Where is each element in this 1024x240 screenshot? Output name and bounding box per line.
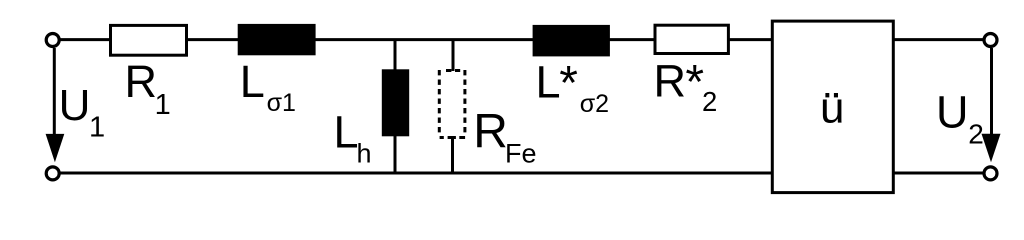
inductor Lh bbox=[382, 69, 409, 136]
svg-text:L: L bbox=[536, 56, 561, 107]
svg-text:R: R bbox=[654, 55, 687, 106]
terminal top-right bbox=[984, 34, 997, 47]
svg-text:R: R bbox=[473, 106, 508, 159]
svg-text:2: 2 bbox=[702, 86, 717, 117]
svg-text:R: R bbox=[125, 56, 158, 107]
resistor R2* bbox=[655, 25, 728, 53]
wire RFe branch top stub bbox=[452, 40, 455, 71]
wire RFe branch bottom stub bbox=[451, 137, 454, 174]
U2 voltage arrow bbox=[990, 48, 993, 140]
inductor Lsigma2* bbox=[533, 25, 610, 57]
transformer uebersetzung box bbox=[772, 21, 893, 193]
U1 voltage arrow bbox=[53, 48, 56, 140]
resistor RFe (dashed) bbox=[439, 70, 465, 138]
svg-text:2: 2 bbox=[968, 118, 984, 149]
resistor R1 bbox=[111, 25, 187, 55]
inductor Lsigma1 bbox=[238, 24, 316, 55]
terminal bottom-left bbox=[46, 167, 59, 180]
svg-text:σ2: σ2 bbox=[580, 90, 609, 118]
wire bottom rail bbox=[58, 172, 984, 175]
terminal bottom-right bbox=[984, 167, 997, 180]
svg-text:L: L bbox=[240, 56, 265, 107]
svg-text:u: u bbox=[820, 83, 844, 132]
svg-text:U: U bbox=[936, 86, 969, 137]
svg-text:*: * bbox=[559, 57, 578, 110]
svg-text:L: L bbox=[334, 107, 359, 158]
wire Lh branch bbox=[394, 40, 397, 173]
wire top rail bbox=[58, 38, 984, 41]
svg-text:1: 1 bbox=[89, 112, 105, 144]
terminal top-left bbox=[46, 34, 59, 47]
svg-text:h: h bbox=[357, 139, 372, 169]
svg-text:Fe: Fe bbox=[505, 139, 537, 169]
svg-text:1: 1 bbox=[155, 89, 171, 121]
svg-text:σ1: σ1 bbox=[267, 89, 296, 117]
svg-text:U: U bbox=[59, 81, 91, 130]
